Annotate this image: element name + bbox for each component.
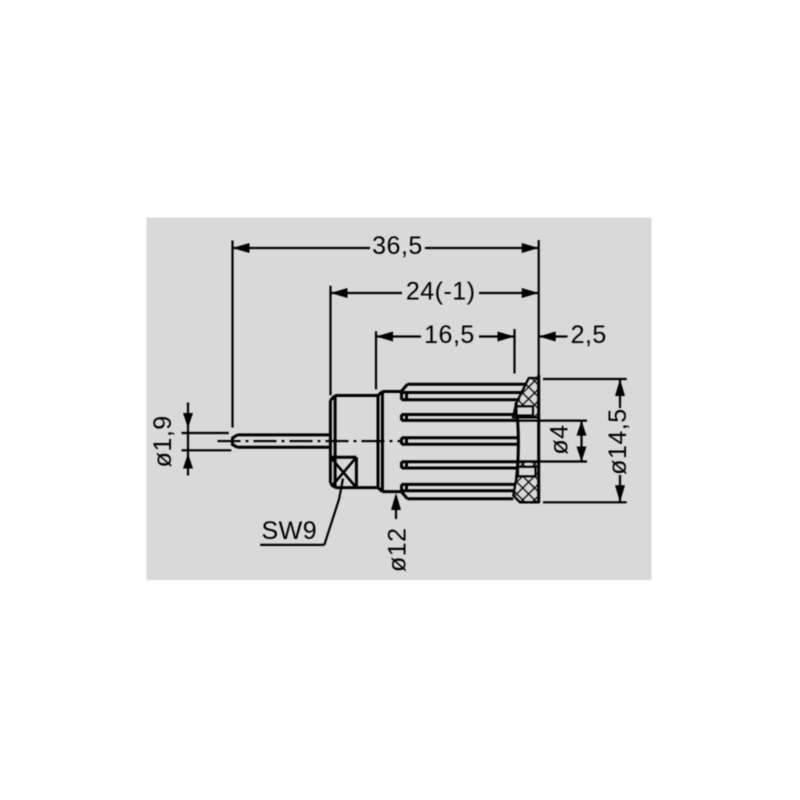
svg-text:ø14,5: ø14,5: [604, 408, 632, 474]
svg-text:36,5: 36,5: [372, 232, 423, 260]
svg-text:SW9: SW9: [261, 517, 317, 545]
svg-text:2,5: 2,5: [571, 321, 607, 349]
svg-text:16,5: 16,5: [424, 321, 475, 349]
svg-text:ø12: ø12: [383, 527, 411, 572]
svg-text:24(-1): 24(-1): [406, 278, 476, 306]
svg-text:ø4: ø4: [546, 424, 574, 454]
svg-text:ø1,9: ø1,9: [149, 415, 177, 467]
